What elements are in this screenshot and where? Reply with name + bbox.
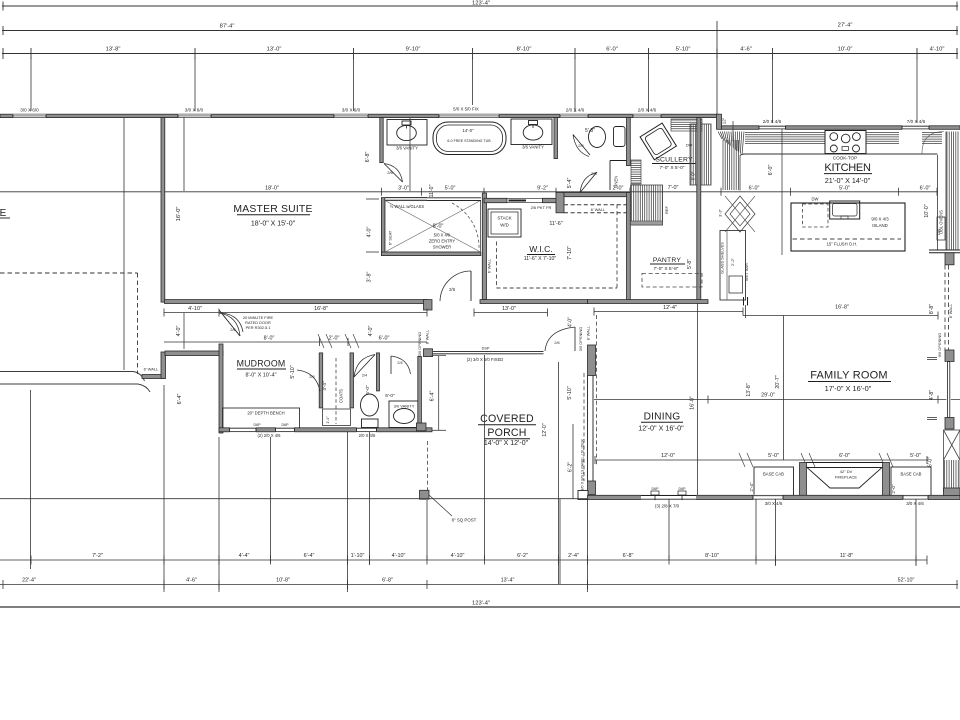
svg-text:3/0 VANITY: 3/0 VANITY xyxy=(394,404,415,409)
svg-text:11'-0": 11'-0" xyxy=(429,184,435,197)
svg-text:5'-0": 5'-0" xyxy=(910,453,921,459)
svg-text:3/0 X 4/6: 3/0 X 4/6 xyxy=(906,501,924,506)
svg-text:7'-0": 7'-0" xyxy=(668,185,679,191)
fixture: vanity 2 with sink xyxy=(511,119,552,145)
window 3/0x4/6 family right xyxy=(903,495,928,500)
svg-text:2'-0": 2'-0" xyxy=(329,336,340,342)
svg-text:DSP: DSP xyxy=(482,347,490,351)
wet bar counter xyxy=(720,231,746,301)
svg-text:13'-8": 13'-8" xyxy=(746,383,752,396)
svg-text:5'-8": 5'-8" xyxy=(687,259,693,269)
kitchen west counter hatch xyxy=(722,140,724,190)
svg-text:6'-8": 6'-8" xyxy=(365,152,371,163)
svg-text:7'-0" X 5'-8": 7'-0" X 5'-8" xyxy=(654,266,679,272)
dimension line: 29'-0" xyxy=(594,399,960,401)
fixture: zero entry shower xyxy=(385,201,481,253)
kitchen dim extension lines xyxy=(781,129,783,255)
svg-text:SHOWER: SHOWER xyxy=(433,245,451,250)
svg-text:7/0 X 4/6: 7/0 X 4/6 xyxy=(907,119,926,124)
svg-text:BASE CAB: BASE CAB xyxy=(901,472,922,477)
svg-text:8'-10": 8'-10" xyxy=(517,47,532,53)
svg-text:3/0 OPENING: 3/0 OPENING xyxy=(417,332,422,356)
porch edge lines xyxy=(484,355,486,560)
svg-text:6'-8": 6'-8" xyxy=(382,578,393,584)
dimension line: 87'-4" / 27'-4" xyxy=(2,30,958,32)
svg-text:2/6: 2/6 xyxy=(387,170,393,175)
svg-text:8" SQ POST: 8" SQ POST xyxy=(452,518,477,523)
svg-text:9/0 X 8/0 13 PANEL / SLIDER: 9/0 X 8/0 13 PANEL / SLIDER xyxy=(580,439,585,491)
svg-text:4'-0": 4'-0" xyxy=(367,227,373,238)
svg-text:4'-10": 4'-10" xyxy=(451,553,465,559)
svg-text:6' WALL: 6' WALL xyxy=(591,207,606,212)
svg-text:5/0 X 4/0: 5/0 X 4/0 xyxy=(434,233,451,238)
svg-text:29'-0": 29'-0" xyxy=(761,393,775,399)
svg-text:2'-2": 2'-2" xyxy=(730,257,735,266)
svg-text:8'-0" X 10'-4": 8'-0" X 10'-4" xyxy=(245,373,276,379)
svg-text:7'-10": 7'-10" xyxy=(567,246,573,260)
svg-text:6'-4": 6'-4" xyxy=(304,553,315,559)
svg-text:6'-4": 6'-4" xyxy=(430,391,436,402)
svg-text:21'-0" X 14'-0": 21'-0" X 14'-0" xyxy=(825,176,871,185)
door 2/4 hall lower xyxy=(580,173,597,193)
svg-text:E: E xyxy=(0,208,7,219)
svg-text:BASE CAB: BASE CAB xyxy=(763,472,784,477)
svg-text:6'-0": 6'-0" xyxy=(839,453,850,459)
svg-text:3/0 X 6/0: 3/0 X 6/0 xyxy=(342,108,361,113)
wall: mudroom west xyxy=(219,344,223,433)
svg-text:52'-10": 52'-10" xyxy=(898,578,915,584)
svg-text:6'-0": 6'-0" xyxy=(606,47,618,53)
fireplace 42 inch DV xyxy=(800,463,807,496)
svg-text:COATS: COATS xyxy=(339,389,344,403)
svg-text:FAMILY ROOM: FAMILY ROOM xyxy=(810,370,888,382)
svg-text:4'-4": 4'-4" xyxy=(322,381,327,391)
svg-text:8'-0": 8'-0" xyxy=(433,224,444,230)
svg-text:2/4: 2/4 xyxy=(397,361,402,365)
fixture: base cabinets + fireplace xyxy=(754,467,794,496)
svg-text:18'-0": 18'-0" xyxy=(265,185,279,191)
svg-text:3'-0": 3'-0" xyxy=(398,185,409,191)
svg-text:8' WALL: 8' WALL xyxy=(948,303,953,318)
svg-text:2/0 X 4/6: 2/0 X 4/6 xyxy=(638,108,657,113)
dimension line: hall row xyxy=(164,312,427,314)
svg-text:DW: DW xyxy=(812,197,819,202)
svg-text:4'-0": 4'-0" xyxy=(368,326,374,337)
dimension line: south wall segments y460 xyxy=(595,459,927,461)
window 2/0x4/6 kitchen xyxy=(759,125,786,130)
wall cap family/kitchen xyxy=(743,297,745,306)
wall: pantry/dining south wall xyxy=(588,300,709,304)
fixture: powder toilet xyxy=(361,394,379,416)
wall: shower north glass continuation xyxy=(427,197,481,199)
wall: WIC south xyxy=(480,300,588,304)
svg-text:16'-0": 16'-0" xyxy=(690,396,696,410)
left area vertical extension lines xyxy=(30,390,32,569)
wall: WC west xyxy=(554,118,558,159)
svg-text:8' WALL: 8' WALL xyxy=(425,329,430,344)
svg-text:3/6 VANITY: 3/6 VANITY xyxy=(396,146,418,151)
svg-text:2/4: 2/4 xyxy=(591,171,597,176)
east wall: family windows xyxy=(945,350,954,362)
wall: powder west xyxy=(377,353,380,391)
dimension line: y560 row xyxy=(0,559,927,561)
svg-text:D6P: D6P xyxy=(679,487,687,491)
triple door dining xyxy=(641,495,696,500)
svg-text:20" DEPTH BENCH: 20" DEPTH BENCH xyxy=(247,411,284,416)
dimension line: y584.5 row xyxy=(0,584,958,586)
svg-text:KITCHEN: KITCHEN xyxy=(824,162,871,174)
svg-text:123'-4": 123'-4" xyxy=(472,601,490,607)
svg-text:16'-8": 16'-8" xyxy=(835,305,849,311)
island DW dashed xyxy=(803,204,829,227)
wall block: slider north xyxy=(588,345,596,376)
wall: mudroom closet walls xyxy=(319,353,323,408)
svg-text:5'-10": 5'-10" xyxy=(676,47,691,53)
svg-text:ZERO ENTRY: ZERO ENTRY xyxy=(429,239,456,244)
svg-text:1'-10": 1'-10" xyxy=(351,553,365,559)
door 2/6 mudroom top xyxy=(222,313,243,332)
svg-text:18'-0" X 15'-0": 18'-0" X 15'-0" xyxy=(251,221,296,228)
svg-text:8'-10": 8'-10" xyxy=(705,553,719,559)
svg-text:4'-4": 4'-4" xyxy=(239,553,250,559)
svg-text:SCULLERY: SCULLERY xyxy=(655,157,693,164)
svg-text:16'-0": 16'-0" xyxy=(176,207,182,222)
svg-text:FIREPLACE: FIREPLACE xyxy=(835,475,858,480)
svg-text:9'-2": 9'-2" xyxy=(537,185,548,191)
svg-text:DINING: DINING xyxy=(644,412,681,423)
svg-text:3/0 OPENING: 3/0 OPENING xyxy=(578,327,583,351)
dining/family separator line xyxy=(697,304,699,496)
svg-text:10'-8": 10'-8" xyxy=(276,578,290,584)
svg-text:3/6 VANITY: 3/6 VANITY xyxy=(522,145,544,150)
svg-text:5'-0": 5'-0" xyxy=(445,185,456,191)
wall jog at kitchen xyxy=(717,114,722,129)
svg-text:5'-8": 5'-8" xyxy=(585,128,595,134)
window 3/0x6/0 (master) xyxy=(334,114,368,118)
svg-text:(2) 2/0 X 4/6: (2) 2/0 X 4/6 xyxy=(257,433,281,438)
svg-text:6' WALL: 6' WALL xyxy=(144,367,160,372)
svg-text:6'-0": 6'-0" xyxy=(749,185,760,191)
window 7/0x4/6 kitchen xyxy=(902,125,929,130)
svg-text:4'-10": 4'-10" xyxy=(392,553,406,559)
kitchen counters: corner left fan hatch xyxy=(718,132,722,140)
svg-text:12'-4": 12'-4" xyxy=(663,305,677,311)
window 2/0x4/6 powder xyxy=(357,427,377,432)
svg-text:5'-0": 5'-0" xyxy=(768,453,779,459)
scullery/pantry west wall xyxy=(627,193,631,303)
svg-text:4'-0": 4'-0" xyxy=(568,317,574,327)
closet shelf small xyxy=(323,409,351,426)
door: 20-min fire rated garage door xyxy=(219,310,240,336)
mudroom bench xyxy=(223,408,300,428)
wall block: slider south + porch post SE xyxy=(588,481,596,495)
svg-text:5'-4": 5'-4" xyxy=(567,178,573,189)
fixture: scullery sink (tilted) xyxy=(640,123,676,160)
svg-text:(2) 3/0 X 5/0 FIXED: (2) 3/0 X 5/0 FIXED xyxy=(467,357,504,362)
svg-text:10'-0": 10'-0" xyxy=(838,47,853,53)
kitchen counters: top hatch left segment xyxy=(745,132,787,134)
svg-text:ISLAND: ISLAND xyxy=(872,223,888,228)
svg-text:11'-6": 11'-6" xyxy=(549,221,562,227)
svg-text:6'-4": 6'-4" xyxy=(177,394,183,405)
svg-text:D6P: D6P xyxy=(652,487,660,491)
wall: top exterior (west wing) xyxy=(0,114,718,117)
svg-text:2/6 PKT FR: 2/6 PKT FR xyxy=(531,205,552,210)
svg-text:6'-8": 6'-8" xyxy=(623,553,634,559)
svg-text:MUDROOM: MUDROOM xyxy=(237,359,286,369)
svg-text:6" SEAT: 6" SEAT xyxy=(388,230,393,245)
door 2/8 master suite xyxy=(440,271,471,301)
door 2/4 WC xyxy=(573,135,589,157)
porch north fixed window xyxy=(433,350,544,352)
svg-text:7'-2": 7'-2" xyxy=(92,553,103,559)
scullery right counter xyxy=(690,124,711,185)
svg-text:14'-0": 14'-0" xyxy=(462,128,474,133)
fixture: toilet master WC xyxy=(589,127,606,148)
svg-text:16'-8": 16'-8" xyxy=(314,306,328,312)
dashed 6-foot wall xyxy=(564,204,631,206)
kitchen counter front edge xyxy=(740,154,938,156)
svg-text:4'-10": 4'-10" xyxy=(188,306,202,312)
svg-text:D6P: D6P xyxy=(282,423,290,427)
svg-text:4'-6": 4'-6" xyxy=(186,578,197,584)
window 2/0x4/6 mudroom b xyxy=(276,427,295,432)
svg-text:PANTRY: PANTRY xyxy=(653,257,681,264)
svg-text:PER R302.5.1: PER R302.5.1 xyxy=(246,325,271,330)
svg-text:4'-6": 4'-6" xyxy=(740,47,752,53)
svg-text:WET BAR: WET BAR xyxy=(744,263,749,281)
wall: shower west xyxy=(381,198,384,256)
svg-text:6' WALL: 6' WALL xyxy=(487,258,492,273)
door 2/4 nook xyxy=(354,355,375,378)
wall: hall south (scullery side) xyxy=(564,193,630,197)
wall: powder east / porch west xyxy=(418,356,422,423)
svg-text:13'-8": 13'-8" xyxy=(106,47,121,53)
wall: WC east / scullery west xyxy=(627,118,631,166)
svg-text:6'-0": 6'-0" xyxy=(385,393,395,399)
svg-text:4'-10": 4'-10" xyxy=(930,47,945,53)
svg-text:2/6: 2/6 xyxy=(554,341,559,345)
svg-text:20'-7": 20'-7" xyxy=(775,375,781,388)
fixture: vanity 1 with sink xyxy=(387,120,427,146)
svg-text:2/8: 2/8 xyxy=(449,287,455,292)
svg-text:13'-4": 13'-4" xyxy=(501,578,515,584)
wall: kitchen north exterior xyxy=(722,126,960,130)
svg-text:2'-4": 2'-4" xyxy=(749,482,754,492)
door 2/6 porch/hall xyxy=(545,327,575,351)
svg-text:14'-0" X 12'-0": 14'-0" X 12'-0" xyxy=(484,440,529,447)
window 2/0x4/6 (vanity) xyxy=(560,114,588,118)
svg-text:2/4: 2/4 xyxy=(578,143,584,148)
svg-text:6'-0": 6'-0" xyxy=(691,171,696,180)
island sink xyxy=(830,201,860,219)
svg-text:13'-0": 13'-0" xyxy=(502,306,516,312)
svg-text:2/6: 2/6 xyxy=(309,375,314,379)
wall: bath/WC partition xyxy=(380,118,383,163)
svg-text:COVERED: COVERED xyxy=(480,413,534,425)
window 3/0x4/6 family left xyxy=(753,495,783,500)
svg-text:6'-0": 6'-0" xyxy=(365,385,371,395)
fixture: kitchen island xyxy=(791,203,905,251)
svg-text:5'-0": 5'-0" xyxy=(839,185,850,191)
dimension line: WIC width xyxy=(474,312,548,314)
svg-text:12'-0": 12'-0" xyxy=(661,453,675,459)
wall: mudroom south xyxy=(219,428,432,432)
svg-text:DBL OVENS: DBL OVENS xyxy=(939,210,944,234)
opening: 3/0 master hall east xyxy=(424,349,433,357)
closet: linen xyxy=(610,160,627,162)
dimension line: dining width xyxy=(594,311,743,313)
dimension line: overall 123'-4" (top) xyxy=(2,5,958,7)
svg-text:15" FLUSH O.H.: 15" FLUSH O.H. xyxy=(827,242,858,247)
svg-text:D6P: D6P xyxy=(254,423,262,427)
family room interior lines xyxy=(745,305,747,318)
dimension line: family room width xyxy=(743,315,938,317)
wall: south exterior (dining/family) xyxy=(588,495,960,499)
svg-text:42" DV: 42" DV xyxy=(840,469,853,474)
pantry dashed shelves xyxy=(642,274,702,288)
svg-text:11'-6" X 7'-10": 11'-6" X 7'-10" xyxy=(524,256,557,262)
kitchen counters: hatch mid-left xyxy=(787,132,825,134)
svg-text:8' WALL: 8' WALL xyxy=(586,325,591,340)
svg-text:6'-0": 6'-0" xyxy=(379,336,390,342)
sliding door 9/0 xyxy=(587,376,589,482)
wall: pantry east xyxy=(697,118,701,302)
bath divider line xyxy=(409,118,411,191)
svg-text:9/0 OPENING: 9/0 OPENING xyxy=(937,333,942,357)
svg-text:6'-0": 6'-0" xyxy=(928,457,934,467)
svg-text:9/0 X 4/3: 9/0 X 4/3 xyxy=(871,217,889,222)
east wall: kitchen to family opening dashed xyxy=(945,253,954,265)
dimension line: overall 123'-4" (bottom) xyxy=(0,606,960,608)
svg-text:12'-0" X 16'-0": 12'-0" X 16'-0" xyxy=(638,424,684,433)
svg-text:6'-0": 6'-0" xyxy=(768,165,774,176)
east built-in cabinets xyxy=(944,430,960,492)
svg-text:87'-4": 87'-4" xyxy=(220,24,235,30)
svg-text:8'-0": 8'-0" xyxy=(264,336,275,342)
svg-text:2/6: 2/6 xyxy=(230,327,236,332)
svg-text:13'-0": 13'-0" xyxy=(267,47,282,53)
svg-text:(3) 2/8 X 7/0: (3) 2/8 X 7/0 xyxy=(655,504,680,509)
svg-text:2/0 X 4/6: 2/0 X 4/6 xyxy=(359,433,376,438)
window 3/0x6/0 (second) xyxy=(178,114,211,118)
fixture: cook-top xyxy=(825,131,866,154)
wall cap kitchen right xyxy=(929,249,960,251)
pantry cabinet hatch xyxy=(631,185,663,225)
svg-text:W/D: W/D xyxy=(500,223,509,228)
door 2/6 into mudroom closet area xyxy=(297,370,320,391)
svg-text:MASTER SUITE: MASTER SUITE xyxy=(233,204,312,215)
svg-text:½ WALL w/GLASS: ½ WALL w/GLASS xyxy=(390,204,425,209)
svg-text:12": 12" xyxy=(722,117,727,124)
svg-text:123'-4": 123'-4" xyxy=(472,1,490,7)
garage door break lines xyxy=(0,372,145,382)
svg-text:6-0 FREE STANDING TUB: 6-0 FREE STANDING TUB xyxy=(447,139,491,143)
svg-text:PORCH: PORCH xyxy=(487,427,526,439)
kitchen counters: hatch right of cooktop xyxy=(866,132,899,134)
wall: WIC north (hall south) with pocket door xyxy=(484,198,507,202)
svg-text:6'-2": 6'-2" xyxy=(517,553,528,559)
wall: master suite west xyxy=(161,118,165,303)
svg-text:12'-0": 12'-0" xyxy=(542,423,548,436)
fixture: kitchen DW right xyxy=(937,217,945,240)
closet rod dashed + COATS xyxy=(335,358,337,424)
svg-text:LINEN: LINEN xyxy=(614,176,619,188)
svg-text:STACK: STACK xyxy=(497,216,511,221)
scullery small counter hatch xyxy=(631,160,641,184)
svg-text:27'-4": 27'-4" xyxy=(838,23,853,29)
svg-text:DW: DW xyxy=(686,144,693,148)
svg-text:3/0 X 4/6: 3/0 X 4/6 xyxy=(765,501,783,506)
svg-text:2'-0": 2'-0" xyxy=(891,484,896,494)
svg-text:2'-4": 2'-4" xyxy=(568,553,579,559)
porch/garage lower edge line xyxy=(0,498,588,500)
fixture: powder vanity xyxy=(389,401,421,428)
garage interior vertical line xyxy=(123,118,125,370)
svg-text:7'-0" X 5'-0": 7'-0" X 5'-0" xyxy=(660,165,685,171)
fixture: free standing tub xyxy=(433,122,506,155)
corner pantry diamond (wet bar) xyxy=(725,196,755,232)
wall jog near 6' wall xyxy=(556,193,564,213)
wall block at master door xyxy=(424,300,433,310)
dimension line: room widths row xyxy=(2,53,958,55)
porch roof post dashed + 8sq post xyxy=(427,441,429,490)
shower dim ticks xyxy=(366,198,379,200)
svg-text:2/4: 2/4 xyxy=(362,374,367,378)
svg-text:1'-4": 1'-4" xyxy=(326,416,330,424)
window 5/0x5/0 fixed (tub) xyxy=(439,114,499,118)
garage dim extension xyxy=(183,118,185,191)
svg-text:3/0 X 6/0: 3/0 X 6/0 xyxy=(185,108,204,113)
window 2/0x4/6 (wc) xyxy=(633,114,661,118)
kitchen counters: corner right curve xyxy=(922,132,944,154)
svg-text:5'-10": 5'-10" xyxy=(567,386,573,399)
svg-text:10'-0": 10'-0" xyxy=(924,204,930,217)
svg-text:22'-4": 22'-4" xyxy=(22,578,36,584)
scullery top counter hatch xyxy=(671,119,702,121)
svg-text:2/0 X 4/6: 2/0 X 4/6 xyxy=(763,119,782,124)
svg-text:11'-8": 11'-8" xyxy=(840,553,853,559)
WIC dashed shelving xyxy=(496,242,498,289)
svg-text:9'-10": 9'-10" xyxy=(406,47,421,53)
svg-text:3'-3": 3'-3" xyxy=(718,209,723,217)
svg-text:17'-0" X 16'-0": 17'-0" X 16'-0" xyxy=(825,384,872,393)
wall: bath south / WIC north xyxy=(482,193,486,300)
window 3/0x6/0 (far left) xyxy=(13,114,46,118)
svg-text:W.I.C.: W.I.C. xyxy=(529,244,552,254)
dimension extension drop lines xyxy=(30,58,32,111)
svg-text:REF: REF xyxy=(664,205,669,214)
svg-text:3/0 X 6/0: 3/0 X 6/0 xyxy=(20,108,39,113)
svg-text:5'-10": 5'-10" xyxy=(290,365,296,378)
svg-text:6'-0": 6'-0" xyxy=(920,185,931,191)
wall: master suite south xyxy=(165,300,428,304)
half wall w/ glass xyxy=(385,197,427,199)
wall: shower south xyxy=(381,252,480,256)
kitchen right counter xyxy=(946,132,948,251)
kitchen cabinet front right xyxy=(937,155,939,250)
dimension line: hall secondary y342 xyxy=(164,341,427,343)
garage dashed slab outline xyxy=(0,272,138,274)
svg-text:COOK-TOP: COOK-TOP xyxy=(833,156,857,161)
wall: garage step walls xyxy=(142,375,165,379)
fixture: stacked washer/dryer xyxy=(488,209,521,237)
door 2/6 into bath xyxy=(384,164,403,183)
svg-text:4'-0": 4'-0" xyxy=(176,326,182,337)
svg-text:2/0 X 4/6: 2/0 X 4/6 xyxy=(566,108,585,113)
svg-text:5/0 X 5/0 FIX: 5/0 X 5/0 FIX xyxy=(453,107,479,112)
svg-text:3'-8": 3'-8" xyxy=(367,272,373,283)
